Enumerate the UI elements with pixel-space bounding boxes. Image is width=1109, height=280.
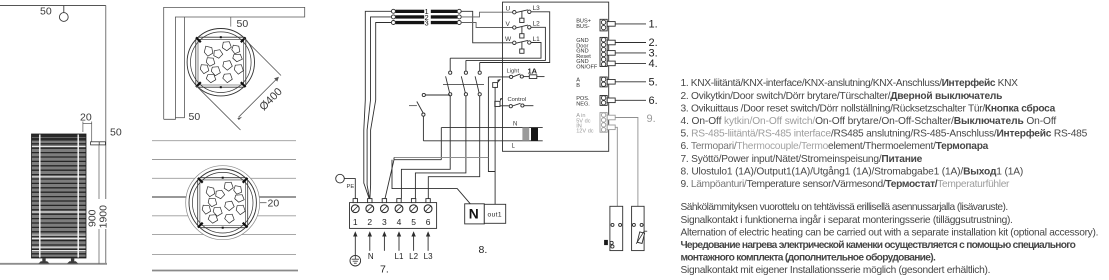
ceiling line: [0, 5, 106, 7]
svg-text:1A: 1A: [528, 66, 538, 75]
svg-text:2: 2: [367, 217, 372, 227]
earth symbol: [350, 255, 361, 266]
svg-text:PE: PE: [347, 184, 355, 190]
svg-text:50: 50: [110, 127, 122, 139]
svg-text:9.: 9.: [647, 113, 656, 125]
svg-text:Ø400: Ø400: [257, 86, 285, 114]
wire switch pole3 to terminal 6: [428, 96, 479, 199]
svg-text:12V dc: 12V dc: [576, 128, 594, 134]
svg-text:out1: out1: [488, 211, 502, 218]
svg-text:4. On-Off kytkin/On-Off switch: 4. On-Off kytkin/On-Off switch/On-Off br…: [681, 116, 1057, 127]
svg-text:5: 5: [411, 217, 416, 227]
N-box feed wire: [392, 160, 470, 204]
svg-text:монтажного комплекта (дополнит: монтажного комплекта (дополнительное обо…: [681, 252, 936, 264]
wire element1 to W: [461, 11, 512, 43]
wall line: [105, 6, 107, 264]
svg-text:1900: 1900: [98, 205, 110, 229]
heating element 2: [391, 13, 461, 22]
svg-text:Sähkölämmityksen vuorottelu on: Sähkölämmityksen vuorottelu on tehtäviss…: [681, 202, 1008, 213]
relay V-L2: [506, 21, 541, 38]
svg-text:6: 6: [426, 217, 431, 227]
svg-text:20: 20: [268, 198, 280, 210]
heating element 3: [391, 18, 461, 27]
svg-text:L3: L3: [424, 252, 433, 261]
supply labels: [368, 252, 433, 261]
svg-text:B: B: [576, 83, 580, 89]
svg-text:L3: L3: [533, 5, 541, 12]
wire L3 to switch pole 3: [480, 12, 550, 63]
sensor wire B: [615, 127, 617, 206]
svg-text:3. Ovikuittaus /Door reset swi: 3. Ovikuittaus /Door reset switch/Dörr n…: [681, 102, 1056, 114]
BUS terminal group: [600, 19, 615, 31]
heater body: [32, 134, 87, 258]
wall sensor box: [91, 142, 106, 145]
svg-text:50: 50: [40, 6, 52, 18]
heater top view 2: [186, 166, 260, 240]
svg-text:4: 4: [397, 217, 402, 227]
out1 feed flag connector: [493, 83, 498, 88]
temperature sensor (NTC): [632, 206, 648, 250]
svg-text:NEG.: NEG.: [576, 101, 590, 107]
supply arrows: [353, 231, 430, 255]
svg-text:L2: L2: [533, 21, 541, 28]
900 label: [86, 209, 98, 227]
svg-text:Signalkontakt i funktionerna i: Signalkontakt i funktionerna ingår i sep…: [681, 214, 1013, 226]
svg-text:6.: 6.: [649, 95, 658, 107]
dim 20: [260, 202, 267, 204]
svg-text:7.: 7.: [380, 264, 389, 276]
svg-text:Control: Control: [508, 97, 527, 103]
callout line 5: [615, 81, 646, 83]
wall boards: [152, 141, 296, 255]
callout line 2: [615, 42, 646, 44]
Control circuit: [495, 97, 534, 108]
wire element2 to U: [461, 12, 512, 17]
wire element3 left to terminal 2: [370, 23, 392, 199]
wall corner band: [164, 7, 305, 119]
svg-text:V: V: [506, 21, 511, 28]
callout line 6: [615, 99, 646, 101]
switch coupling bar: [443, 84, 484, 86]
terminal block: [350, 199, 437, 229]
svg-text:L: L: [512, 144, 516, 150]
callout line 4: [615, 62, 646, 64]
main switch pole 2: [461, 60, 467, 96]
callout line 1: [615, 23, 646, 25]
svg-text:1: 1: [353, 217, 358, 227]
svg-text:8. Ulostulo1 (1A)/Output1(1A)/: 8. Ulostulo1 (1A)/Output1(1A)/Utgång1 (1…: [681, 165, 1024, 177]
svg-text:L1: L1: [533, 36, 541, 43]
dim 50 top: [230, 17, 232, 27]
transformer: [423, 122, 542, 150]
terminal3 riser diagonal: [385, 158, 394, 199]
dark N bus: [394, 159, 441, 161]
svg-text:50: 50: [237, 18, 249, 30]
sensor circle at ceiling: [63, 6, 65, 13]
wire L2 to switch pole 2: [466, 27, 546, 60]
svg-text:L2: L2: [409, 252, 418, 261]
dia 400 dimension: [244, 38, 281, 75]
svg-text:N: N: [469, 207, 479, 222]
svg-text:3: 3: [425, 18, 429, 27]
svg-text:Light: Light: [507, 69, 520, 75]
svg-text:900: 900: [86, 209, 98, 227]
thermocouple sensor: [604, 206, 623, 250]
svg-text:N: N: [368, 252, 374, 261]
heating element 1: [391, 7, 461, 16]
POS/NEG terminal group: [600, 96, 615, 106]
wire switch pole1 to terminal 4: [401, 96, 450, 199]
N relay box: [465, 204, 485, 224]
svg-text:5. RS-485-liitäntä/RS-485 inte: 5. RS-485-liitäntä/RS-485 interface/RS48…: [681, 128, 1088, 140]
wire element2 left to terminal 2: [367, 17, 391, 199]
wire L1 to switch pole 1: [450, 43, 541, 59]
door/reset/onoff terminal group: [600, 37, 615, 66]
PE wire: [344, 179, 355, 199]
1900 label: [98, 199, 109, 229]
Light circuit: [488, 66, 544, 157]
svg-text:L1: L1: [395, 252, 404, 261]
wire element3 to V: [461, 23, 512, 28]
svg-text:U: U: [506, 6, 511, 13]
wire element1 left to terminal 2: [364, 11, 392, 198]
grey N bus: [394, 157, 488, 159]
out1 feed wire: [494, 87, 496, 204]
relay W-L1: [505, 36, 540, 54]
svg-text:20: 20: [80, 112, 92, 124]
PE circle: [336, 174, 345, 183]
svg-text:Чередование нагрева электричес: Чередование нагрева электрической каменк…: [681, 240, 1076, 251]
svg-text:W: W: [505, 36, 512, 43]
dim line 900: [98, 145, 100, 264]
heater feet: [38, 258, 78, 264]
sensor input terminal group (grey): [600, 113, 615, 133]
floor line: [0, 263, 107, 265]
main switch pole 1: [446, 58, 452, 96]
svg-text:5.: 5.: [649, 76, 658, 88]
out1 box: [484, 204, 505, 223]
main switch pole 3: [475, 63, 481, 96]
controller box outline: [503, 2, 609, 151]
svg-text:N: N: [513, 122, 517, 128]
A/B terminal group: [600, 77, 615, 87]
svg-text:1.: 1.: [649, 19, 658, 31]
relay U-L3: [506, 5, 541, 22]
svg-text:BUS-: BUS-: [576, 24, 590, 30]
svg-text:4.: 4.: [649, 58, 658, 70]
svg-text:1. KNX-liitäntä/KNX-interface/: 1. KNX-liitäntä/KNX-interface/KNX-anslut…: [681, 77, 1019, 89]
svg-text:2. Ovikytkin/Door switch/Dörr: 2. Ovikytkin/Door switch/Dörr brytare/Tü…: [681, 91, 1003, 102]
control aux switch: [409, 93, 450, 140]
svg-text:50: 50: [189, 111, 201, 123]
wire switch pole2 to terminal 5: [415, 96, 466, 199]
svg-text:Alternation of electric heatin: Alternation of electric heating can be c…: [681, 227, 1099, 238]
svg-text:9. Lämpöanturi/Temperature sen: 9. Lämpöanturi/Temperature sensor/Värmes…: [681, 179, 1011, 190]
svg-text:8.: 8.: [479, 244, 488, 256]
sensor wire A: [615, 118, 638, 207]
svg-text:6. Termopari/Thermocouple/Term: 6. Termopari/Thermocouple/Termoelement/T…: [681, 141, 989, 152]
svg-text:3: 3: [382, 217, 387, 227]
N wire down: [440, 128, 442, 160]
svg-text:ON/OFF: ON/OFF: [576, 65, 598, 71]
callout line 3: [615, 52, 646, 54]
svg-text:Signalkontakt mit eigener Inst: Signalkontakt mit eigener Installationss…: [681, 265, 991, 276]
svg-text:7. Syöttö/Power input/Nätet/St: 7. Syöttö/Power input/Nätet/Stromeinspei…: [681, 154, 923, 165]
